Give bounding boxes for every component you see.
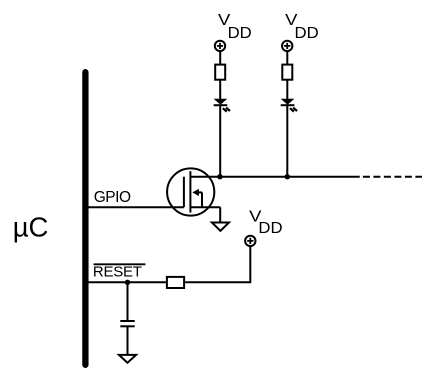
wire: LED2 to drain rail	[286, 105, 288, 177]
wire GPIO: µC to gate	[85, 206, 184, 208]
label RESET (with overline)	[93, 264, 145, 281]
label VDD (pull-up)	[249, 209, 282, 238]
wire: R1 to LED1	[219, 80, 221, 100]
LED D1	[214, 99, 230, 112]
ground (below capacitor)	[119, 355, 136, 363]
svg-text:µC: µC	[13, 212, 49, 243]
svg-text:DD: DD	[258, 220, 282, 237]
resistor R2 (RESET pull-up)	[167, 277, 184, 288]
label VDD (LED2)	[285, 12, 319, 42]
wire: junction down to capacitor	[127, 282, 129, 320]
ground (below source)	[212, 223, 229, 231]
LED D2	[281, 99, 297, 112]
wire: LED1 to drain rail	[219, 105, 221, 177]
node: LED2 junction	[285, 174, 290, 179]
resistor R3 (LED2 series)	[282, 65, 292, 80]
svg-text:DD: DD	[295, 25, 319, 42]
capacitor C1	[120, 321, 134, 326]
n-channel MOSFET Q1	[167, 168, 220, 215]
wire: dashed continuation	[363, 176, 422, 178]
svg-text:RESET: RESET	[93, 264, 142, 281]
wire: R3 to LED2	[286, 80, 288, 100]
microcontroller bus bar (µC)	[82, 72, 88, 365]
label VDD (LED1)	[218, 12, 252, 42]
wire: VDD2 to resistor R3	[286, 51, 288, 64]
power supply VDD (LED1)	[215, 41, 225, 51]
wire: R2 to VDD supply	[185, 247, 250, 283]
node: drain / LED1 junction	[217, 174, 222, 179]
node: RESET junction	[125, 280, 130, 285]
wire: capacitor to ground	[127, 326, 129, 355]
wire: drain rail	[190, 176, 359, 178]
svg-text:DD: DD	[228, 25, 252, 42]
resistor R1 (LED1 series)	[215, 65, 225, 80]
svg-text:GPIO: GPIO	[94, 189, 131, 206]
power supply VDD (pull-up)	[245, 236, 255, 246]
wire RESET: µC to resistor R2	[85, 281, 166, 283]
wire: VDD1 to resistor R1	[219, 51, 221, 64]
wire: source down to ground	[219, 207, 221, 222]
power supply VDD (LED2)	[282, 41, 292, 51]
